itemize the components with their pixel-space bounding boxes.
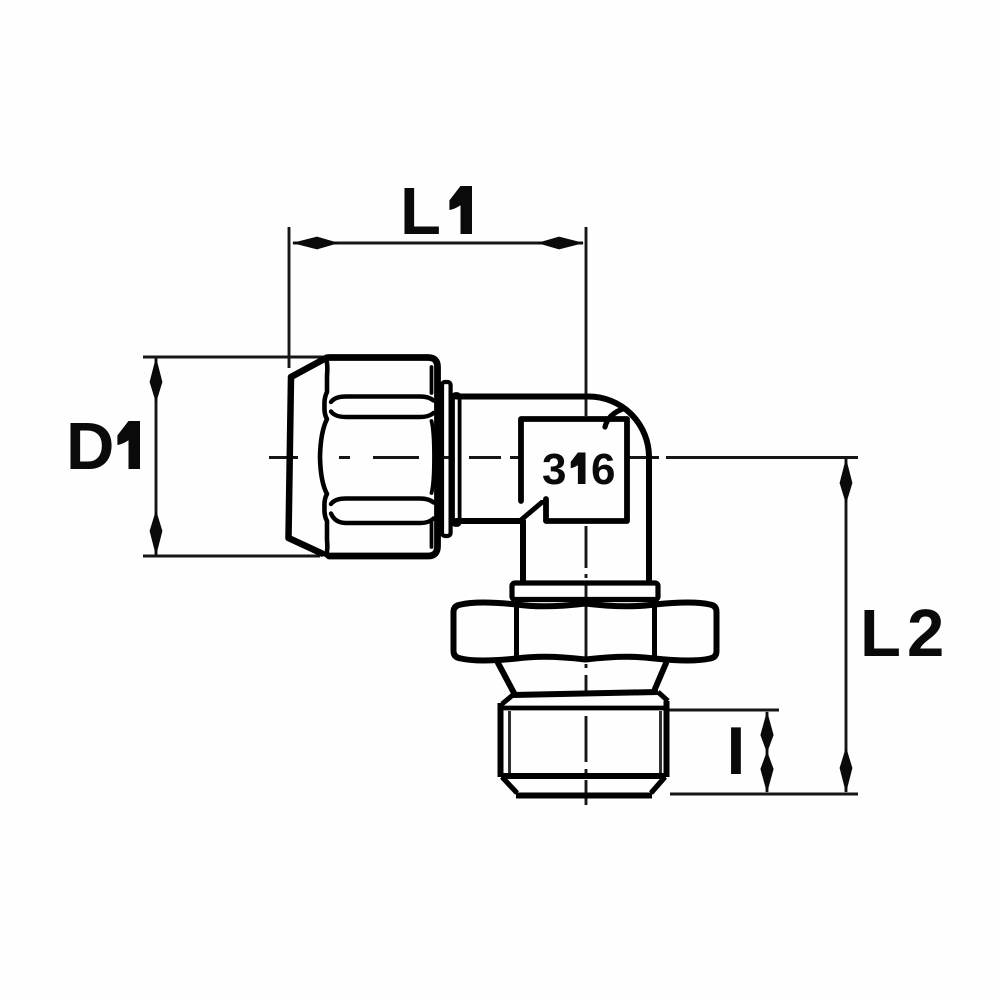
hex division line right	[652, 604, 657, 659]
thread shoulder left step	[502, 694, 514, 704]
L2 arrow top	[840, 458, 853, 504]
washer ring	[512, 583, 658, 600]
I dimension line	[766, 712, 769, 792]
thread outer left edge	[498, 703, 504, 777]
L2 arrow bottom	[840, 747, 853, 793]
D1 top extension line	[143, 356, 331, 359]
centerline stub right of 316 box	[628, 456, 659, 459]
dimension arrowheads	[150, 237, 853, 793]
neck end face ring	[453, 394, 460, 525]
neck top edge	[456, 394, 589, 400]
D1 arrow top	[150, 357, 163, 403]
thread minor dia left	[508, 711, 511, 774]
neck bottom edge	[456, 518, 520, 524]
thread outer right edge	[664, 701, 670, 777]
nut back face (left trapezoid)	[289, 358, 328, 554]
L1 arrow right	[537, 237, 584, 250]
I arrow bottom	[760, 751, 773, 793]
cone bottom edge	[513, 692, 658, 695]
collar ring between nut and body	[442, 382, 451, 536]
svg-text:2: 2	[907, 596, 944, 671]
svg-text:3: 3	[542, 445, 566, 494]
lower body: washer, hex, cone, thread	[454, 583, 717, 796]
elbow body right edge	[646, 457, 652, 581]
L2 bottom / I bottom shared extension line	[670, 793, 858, 796]
cone left slant	[498, 662, 515, 694]
I top extension line	[667, 709, 779, 712]
nut lower chamfer band	[331, 499, 434, 505]
thread shoulder right step	[658, 692, 668, 701]
vertical centerline lower (through hex and thread)	[585, 526, 588, 805]
316 label box	[521, 419, 627, 521]
intersection line fragment over box corner	[605, 409, 624, 428]
cone right slant	[655, 662, 667, 690]
thread chamfer left	[502, 777, 517, 793]
thread top edge	[503, 706, 664, 711]
hex outline	[454, 603, 717, 661]
svg-text:I: I	[727, 713, 746, 789]
nut upper chamfer band	[331, 397, 434, 403]
nut right face edge	[432, 421, 435, 493]
L2 top extension line	[666, 456, 858, 459]
horizontal centerline through nut	[269, 456, 519, 459]
D1 bottom extension line	[143, 555, 320, 558]
thread chamfer right	[651, 777, 665, 793]
thread end line	[501, 773, 666, 779]
I arrow top	[760, 711, 773, 753]
hex division line left	[514, 604, 519, 659]
thread bottom face	[516, 793, 652, 799]
L1 dimension line	[293, 242, 583, 245]
nut left wavy boundary	[320, 359, 327, 555]
elbow outer corner arc	[589, 397, 650, 458]
nut outer outline	[329, 358, 438, 557]
L2 dimension line	[845, 459, 848, 792]
thin dimension framework	[143, 227, 858, 805]
svg-text:L: L	[400, 174, 441, 249]
elbow body left edge	[520, 521, 526, 581]
L1 arrow left	[292, 237, 339, 250]
L1 left extension line	[288, 227, 291, 368]
D1 arrow bottom	[150, 510, 163, 556]
svg-text:D: D	[66, 409, 114, 484]
cylinder intersection diagonal at inner corner	[521, 498, 547, 520]
svg-text:6: 6	[591, 445, 615, 494]
L1 right extension line / vertical centerline upper	[585, 227, 588, 416]
thread minor dia right	[659, 711, 662, 774]
D1 dimension line	[155, 358, 158, 555]
svg-text:L: L	[860, 596, 901, 671]
